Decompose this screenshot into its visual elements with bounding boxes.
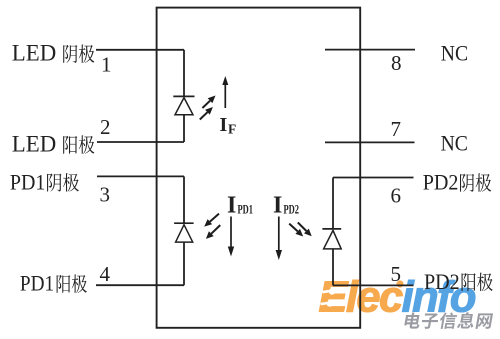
label PD2 cathode pin6 (423, 170, 491, 195)
IPD2 label (273, 193, 299, 219)
svg-text:LED: LED (12, 41, 56, 66)
wire pin 1 (96, 49, 184, 51)
svg-text:2: 2 (100, 115, 111, 139)
svg-text:PD2: PD2 (423, 170, 459, 195)
svg-text:I: I (273, 193, 282, 219)
wire pin 6 (333, 177, 414, 179)
LED D1 (173, 50, 194, 142)
svg-text:1: 1 (101, 52, 112, 76)
label PD1 cathode pin3 (10, 169, 79, 194)
IPD1 current arrow (230, 217, 232, 247)
svg-text:4: 4 (100, 262, 111, 286)
svg-text:PD1: PD1 (10, 169, 45, 194)
svg-text:PD1: PD1 (238, 202, 254, 217)
photodiode PD1 (174, 176, 194, 285)
IF current arrow (224, 85, 226, 108)
watermark 电子信息网 (404, 312, 493, 329)
wire pin 5 (333, 284, 414, 286)
label LED cathode pin1 (12, 41, 95, 66)
svg-text:6: 6 (391, 184, 402, 208)
wire pin 8 (325, 49, 415, 51)
watermark Elecinfo logo (319, 274, 476, 322)
svg-text:PD2: PD2 (424, 269, 460, 294)
svg-text:NC: NC (441, 131, 468, 156)
svg-text:5: 5 (391, 262, 402, 286)
svg-text:LED: LED (12, 132, 56, 157)
label PD1 anode pin4 (20, 271, 87, 296)
PD1 incident light arrows (204, 214, 220, 239)
svg-text:3: 3 (100, 183, 111, 207)
svg-text:8: 8 (391, 51, 402, 75)
svg-text:I: I (227, 193, 236, 219)
label LED anode pin2 (12, 132, 95, 157)
wire pin 4 (96, 284, 184, 286)
PD2 incident light arrows (289, 222, 312, 236)
IC body outline (157, 8, 361, 328)
IPD1 label (227, 193, 253, 219)
IF label (220, 114, 237, 137)
photodiode PD2 (322, 178, 341, 286)
LED emission arrows (200, 96, 216, 120)
IPD2 current arrow (278, 217, 280, 251)
svg-text:NC: NC (441, 40, 468, 65)
wire pin 2 (97, 141, 184, 143)
label PD2 anode pin5 (424, 269, 493, 294)
svg-text:PD2: PD2 (284, 202, 300, 217)
svg-text:PD1: PD1 (20, 271, 54, 296)
svg-text:7: 7 (391, 117, 402, 141)
svg-text:F: F (228, 122, 236, 137)
wire pin 7 (325, 141, 415, 143)
svg-text:I: I (220, 114, 228, 136)
wire pin 3 (97, 175, 184, 177)
